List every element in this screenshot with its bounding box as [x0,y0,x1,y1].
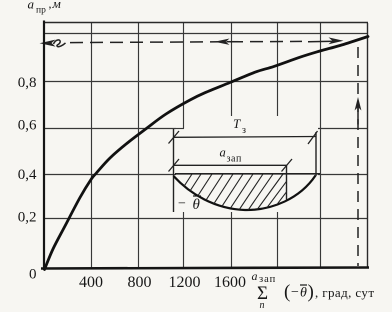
mid left arrowhead on dashed line [215,39,230,45]
svg-text:a: a [252,269,258,283]
grid horizontal y=81 (level 0,8) [44,81,367,83]
grid vertical x=138 [138,23,140,268]
grid vertical x=231 [231,23,233,268]
svg-text:0,2: 0,2 [18,210,37,226]
inset left vertical edge [173,129,175,212]
left axis [43,21,45,271]
main curve [45,37,369,270]
top frame line y=23 [43,22,368,24]
svg-text:,: , [49,0,52,11]
svg-text:1200: 1200 [169,274,201,291]
a_zap left slash tick [169,159,180,172]
grid 0,6 line stub inside inset edge [176,128,184,130]
svg-text:400: 400 [79,274,103,291]
bottom axis [41,268,369,269]
svg-text:1600: 1600 [214,274,246,291]
lens chord on 0,4 line [175,173,320,175]
grid vertical x=320 [320,23,322,268]
squiggle after left arrow [54,40,66,47]
up arrowhead on dashed vertical [355,97,362,111]
svg-text:пр: пр [36,6,46,16]
svg-text:θ: θ [193,197,201,213]
svg-text:a: a [220,146,226,160]
svg-text:T: T [233,116,241,131]
svg-text:0,4: 0,4 [18,167,37,183]
grid vertical x=277.5 [277,23,279,268]
inset erase box [176,116,318,212]
svg-text:0: 0 [29,267,37,283]
right arrowhead on dashed line [308,40,334,43]
svg-text:0,8: 0,8 [18,75,37,91]
svg-text:θ: θ [300,286,307,301]
lens curve [174,176,316,211]
T3 left slash tick [169,131,180,144]
svg-text:): ) [308,282,314,303]
hatching [170,174,300,219]
svg-text:n: n [260,300,265,311]
svg-text:0,6: 0,6 [18,118,37,134]
T3 right slash tick [308,131,318,144]
divider at a_zap right end [286,165,288,199]
left arrowhead at axis [40,40,56,47]
svg-text:м: м [52,0,61,11]
grid vertical x=183.5 [183,23,185,268]
svg-text:800: 800 [128,274,152,291]
svg-text:−: − [178,197,186,212]
grid horizontal y=33 (level 1,0) [44,33,367,35]
svg-text:зап: зап [227,154,242,165]
inset right vertical edge [315,132,317,176]
a_zap right slash tick [282,159,293,172]
svg-text:−: − [291,285,299,300]
gridline x=183.5 stub above inset [183,116,185,129]
svg-text:(: ( [284,282,290,303]
grid horizontal y=174 (level 0,4) [44,174,367,176]
svg-text:a: a [28,0,35,12]
svg-text:з: з [242,125,246,136]
grid vertical x=91 [91,23,93,268]
svg-text:, град, сут: , град, сут [315,285,374,300]
T3 dimension line [174,136,317,139]
grid horizontal y=128 (level 0,6) [44,128,367,130]
dashed horizontal line y=42 [70,41,302,42]
dashed vertical line x=358 [357,47,359,266]
right border x=367 [367,23,369,268]
grid horizontal y=218 (level 0,2) [44,218,367,220]
a_zap dimension line [174,164,287,166]
